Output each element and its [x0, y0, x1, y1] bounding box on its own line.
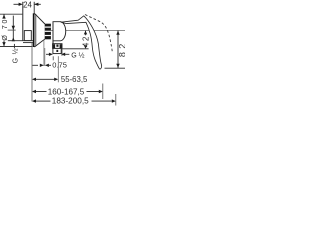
dimension 0.75: [32, 61, 67, 70]
svg-text:55-63,5: 55-63,5: [61, 75, 88, 84]
extension line (escutcheon gap): [43, 40, 45, 66]
dimension 42 (rotated): [62, 31, 90, 49]
extension line flange right: [61, 49, 63, 56]
wall line: [22, 2, 24, 41]
leader G 1/2 (left): [11, 16, 19, 64]
escutcheon face: [33, 13, 35, 47]
stub nipple left: [52, 56, 54, 60]
knurled nut: [45, 24, 51, 40]
hose nipple: [53, 48, 61, 53]
valve body (D shape): [53, 22, 66, 41]
union nut (square): [24, 31, 31, 41]
extension line left (long, from union): [31, 43, 33, 102]
svg-text:24: 24: [23, 0, 32, 9]
extension line hose centre: [57, 56, 59, 82]
dimension 24 (top): [14, 2, 41, 13]
extension line bottom (escutcheon): [0, 46, 33, 48]
svg-text:Ø 70: Ø 70: [1, 18, 9, 41]
svg-text:G ½: G ½: [71, 52, 84, 60]
escutcheon rim line: [35, 14, 37, 46]
dimension 82 (rotated, right): [105, 31, 128, 69]
lever handle (solid, closed position): [61, 16, 102, 69]
escutcheon cone bottom edge: [34, 39, 45, 47]
svg-text:82: 82: [117, 40, 125, 57]
dimension 55-63,5: [32, 75, 88, 84]
lever open position (dashed): [85, 15, 112, 53]
centerline: [8, 29, 16, 31]
dimension 160-167,5: [32, 84, 103, 100]
svg-text:160-167,5: 160-167,5: [48, 87, 85, 96]
dimension 183-200,5: [32, 94, 116, 106]
extension line top (escutcheon): [0, 13, 22, 15]
dimension Ø 70 (left, rotated): [1, 14, 9, 46]
line under square: [8, 40, 34, 42]
svg-text:G ½: G ½: [11, 48, 19, 64]
outlet flange: [53, 41, 62, 49]
svg-text:0.75: 0.75: [52, 61, 67, 70]
dimension G 1/2 (outlet): [46, 52, 85, 60]
svg-text:42: 42: [82, 35, 91, 47]
escutcheon cone top edge: [34, 13, 45, 24]
svg-text:183-200,5: 183-200,5: [52, 96, 89, 105]
